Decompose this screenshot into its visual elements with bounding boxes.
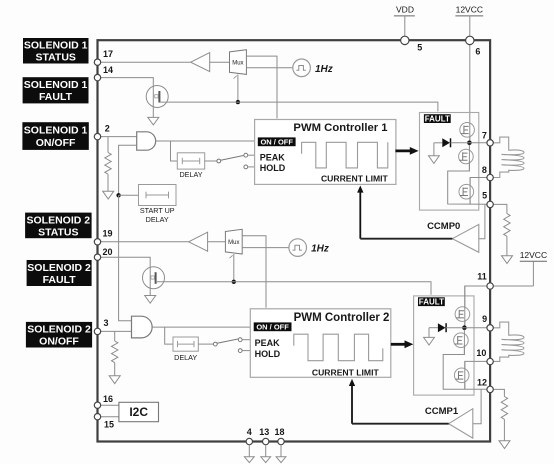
VDD supply label [394,5,415,37]
svg-text:Mux: Mux [228,240,239,246]
solenoid coil L1 (pins 7-8) [493,137,524,177]
svg-text:4: 4 [247,427,252,437]
svg-text:SOLENOID 2: SOLENOID 2 [26,214,90,226]
svg-text:I2C: I2C [129,405,148,419]
transistor Q5 (low side B1) [459,178,474,205]
svg-text:2: 2 [105,124,110,134]
wire pin 11 to external 12VCC [493,285,534,287]
svg-text:18: 18 [274,427,284,437]
switch SW1 peak/hold [205,153,255,169]
ground below R4 [499,441,510,449]
wire mux M1 input B from 1Hz [246,67,293,69]
Q2 channel bar [155,272,157,284]
svg-text:CURRENT LIMIT: CURRENT LIMIT [321,173,389,183]
svg-text:15: 15 [104,420,114,430]
Q1 channel bar [158,91,160,103]
solenoid coil L2 (pins 9-10) [493,322,524,361]
wire pin 10 to Q8 drain [465,361,488,368]
svg-text:DELAY: DELAY [179,170,202,179]
svg-text:FAULT: FAULT [39,91,73,103]
svg-text:FAULT: FAULT [425,114,450,123]
pin 14 [94,65,113,81]
wire pin 11 supply into FAULT2 [465,286,488,328]
transistor Q7 (low side A2) [454,330,469,355]
block FAULT2 [414,296,474,395]
svg-text:1Hz: 1Hz [311,244,329,255]
ground below R2 [109,376,120,384]
svg-text:12VCC: 12VCC [456,5,483,15]
buffer U1 (solenoid 1 status) [191,53,210,72]
pin 3 [94,318,108,334]
pin 13 bottom [259,427,270,463]
wire pin 8 to Q5 drain [470,178,488,186]
block START UP DELAY [139,185,177,225]
svg-text:14: 14 [103,65,113,75]
wire pin 3 to AND2 [101,330,132,332]
svg-text:FAULT: FAULT [43,274,77,286]
transistor Q4 (low side A1) [459,145,474,171]
node mux2 select junction [232,280,236,284]
mux M1 [230,50,247,79]
svg-text:12VCC: 12VCC [520,250,547,260]
pin 17 [94,49,113,65]
svg-text:PEAK: PEAK [255,338,281,348]
label SOLENOID 2 ON/OFF [26,322,92,348]
svg-text:STATUS: STATUS [35,52,75,64]
pin 20 [94,247,112,261]
svg-text:SOLENOID 2: SOLENOID 2 [27,324,91,336]
comparator CCMP0 [427,221,479,252]
wire CCMP1 output to PWM2 current limit [352,423,449,425]
label SOLENOID 2 FAULT [27,260,92,286]
wire CCMP0 output to PWM1 current limit [360,238,452,240]
svg-text:DELAY: DELAY [174,353,197,362]
transistor Q6 (high side 2) [455,286,470,328]
wire Q8 source to sense rail 2 [464,382,466,390]
wire branch to DELAY1 [171,141,178,161]
pin 15 [94,414,114,430]
wire junction to startup delay box [119,194,139,196]
svg-text:VDD: VDD [396,5,414,15]
wire mux M2 input B from 1Hz 2 [242,247,289,249]
svg-text:HOLD: HOLD [260,163,286,173]
label FAULT2 [418,297,445,306]
wire branch to DELAY2 [165,327,173,344]
transistor Q1 (solenoid 1 fault pull) [146,86,168,108]
svg-text:SOLENOID 1: SOLENOID 1 [24,125,88,137]
svg-text:1Hz: 1Hz [315,64,333,75]
12VCC supply label top [455,5,483,37]
svg-text:PWM Controller 2: PWM Controller 2 [294,312,390,324]
svg-text:7: 7 [482,131,487,141]
wire Q4 source to sense rail [448,161,487,204]
pin 10 [476,348,493,365]
svg-text:PEAK: PEAK [260,152,286,162]
buffer U2 (solenoid 2 status) [189,232,208,251]
ground below Q2 [145,289,156,304]
wire junction to pin 9 [464,327,488,329]
wire CCMP0 input from pin 5 [479,204,485,238]
pin 18 bottom [274,427,285,463]
wire pin 17 to status buffer [101,61,191,63]
svg-text:SOLENOID 2: SOLENOID 2 [27,262,91,274]
node fault1 output junction [467,141,472,146]
wire mux M2 input A from PWM2 [242,236,266,308]
wire buffer2 to mux2 [208,241,226,243]
svg-text:STATUS: STATUS [38,226,78,238]
label FAULT1 [424,114,451,123]
svg-text:SOLENOID 1: SOLENOID 1 [24,79,88,91]
pin 7 [482,131,493,146]
block FAULT1 [420,113,479,211]
pin 8 [482,165,493,181]
transistor Q3 (high side 1) [460,123,475,143]
12VCC supply label right [520,250,547,286]
pin 4 bottom [244,427,254,463]
block PWM Controller 2 [250,309,390,378]
block PWM Controller 1 [255,120,396,185]
wire mux M1 input A from PWM1 [246,56,277,118]
wire Q7 source to sense rail 2 [443,345,487,390]
wire CCMP1 input from pin 12 [473,389,481,423]
svg-text:20: 20 [103,247,113,257]
label SOLENOID 1 STATUS [23,38,89,64]
pin 11 [477,272,493,290]
svg-text:Mux: Mux [232,60,243,66]
resistor R4 (pin 12 sense) [493,389,508,440]
svg-text:CCMP0: CCMP0 [427,221,460,232]
ground below Q1 [148,108,159,125]
node fault2 output junction [462,325,467,330]
wire buffer to mux [210,61,230,63]
wire startup net down to AND2 [119,195,132,320]
pin 9 [482,314,493,331]
svg-text:19: 19 [103,229,113,239]
comparator CCMP1 [425,406,473,438]
svg-text:8: 8 [482,165,487,175]
wire junction to pin 7 [469,142,488,144]
wire AND1 output to PWM1 ON/OFF [156,140,258,142]
switch SW2 peak/hold [198,338,250,353]
svg-text:ON/OFF: ON/OFF [39,336,79,348]
resistor R3 (pin 5 sense) [493,204,510,255]
svg-text:START UP: START UP [140,206,175,215]
node startup junction [116,193,120,197]
svg-text:ON/OFF: ON/OFF [36,137,76,149]
diode D1 [434,138,470,147]
arrow current limit 1 (from CCMP0) [357,186,363,239]
wire pin 14 to Q1 gate [101,78,154,108]
wire Q1 drain to FAULT1 block [159,102,438,111]
diode D2 [429,323,464,332]
wire pin 2 to AND1 [101,136,137,138]
transistor Q2 (solenoid 2 fault pull) [143,267,165,289]
block DELAY1 [177,153,204,179]
svg-text:ON / OFF: ON / OFF [256,322,289,331]
svg-text:3: 3 [104,318,109,328]
ground below R1 [103,191,114,199]
svg-text:9: 9 [482,314,487,324]
svg-text:SOLENOID 1: SOLENOID 1 [24,40,88,52]
label SOLENOID 1 FAULT [23,77,89,103]
ground at D2 anode [424,328,435,345]
arrow PWM1 output to FAULT1 [395,147,418,155]
block I2C [101,402,159,421]
svg-text:12: 12 [477,377,487,387]
svg-text:17: 17 [103,49,113,59]
wire pin 19 to status buffer 2 [101,241,189,243]
block DELAY2 [173,337,198,362]
svg-text:10: 10 [476,348,486,358]
oscillator 1Hz (bottom) [289,239,329,257]
wire pin 20 to Q2 gate [101,257,151,289]
resistor R1 (pin 2 pulldown) [105,137,111,192]
mux M2 [225,229,242,258]
pin 16 [94,394,113,408]
wire 12VCC internal rail from pin 6 down into FAULT1 [469,43,471,143]
svg-text:PWM Controller 1: PWM Controller 1 [293,122,387,134]
gate AND2 [132,316,153,338]
svg-text:DELAY: DELAY [146,215,169,224]
wire Q5 source to sense rail [469,198,471,204]
label SOLENOID 1 ON/OFF [22,122,88,150]
svg-text:13: 13 [259,427,269,437]
svg-text:CURRENT LIMIT: CURRENT LIMIT [312,367,380,377]
label SOLENOID 2 STATUS [25,213,92,239]
svg-text:ON / OFF: ON / OFF [260,137,293,146]
wire mux M1 select to fault net [237,74,239,102]
main IC boundary box [98,40,491,441]
pin 5 right [482,191,493,208]
wire mux M2 select to fault2 net [233,254,235,282]
arrow current limit 2 (from CCMP1) [349,379,355,424]
pin 6 top [466,36,481,56]
svg-text:HOLD: HOLD [255,349,281,359]
svg-text:11: 11 [477,272,487,282]
ground at D1 anode [429,143,440,164]
arrow PWM2 output to FAULT2 [391,340,414,348]
wire AND1 second input from startup delay net [119,145,137,195]
resistor R2 (pin 3 pulldown) [111,331,117,375]
pin 5 top [401,36,423,52]
svg-text:CCMP1: CCMP1 [425,406,459,417]
pin 12 [477,377,493,392]
pin 19 [94,229,112,245]
svg-text:6: 6 [475,46,480,56]
svg-text:16: 16 [103,394,113,404]
svg-text:5: 5 [417,42,422,52]
ground below R3 [502,256,513,264]
transistor Q8 (low side B2) [454,361,469,389]
wire AND2 output to PWM2 ON/OFF [152,326,254,328]
node mux1 select junction [236,100,240,104]
svg-text:5: 5 [482,191,487,201]
wire Q2 drain to FAULT2 block [156,282,431,295]
oscillator 1Hz (top) [293,59,333,77]
svg-text:FAULT: FAULT [419,298,444,307]
gate AND1 [137,132,156,150]
pin 2 [94,124,110,140]
